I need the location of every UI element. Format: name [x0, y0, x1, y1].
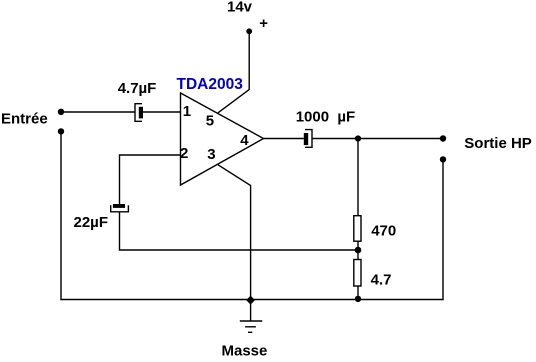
svg-text:1: 1: [183, 103, 191, 120]
svg-text:3: 3: [207, 146, 215, 163]
svg-text:4: 4: [240, 132, 249, 149]
svg-text:5: 5: [206, 113, 214, 130]
svg-text:22µF: 22µF: [74, 214, 109, 231]
svg-text:Entrée: Entrée: [1, 110, 48, 127]
svg-text:4.7: 4.7: [371, 272, 392, 289]
svg-text:Masse: Masse: [222, 343, 268, 360]
svg-text:Sortie HP: Sortie HP: [464, 135, 532, 152]
svg-text:+: +: [259, 15, 268, 32]
svg-text:14v: 14v: [227, 0, 253, 16]
svg-text:2: 2: [180, 145, 188, 162]
svg-text:4.7µF: 4.7µF: [118, 80, 157, 97]
svg-text:470: 470: [371, 223, 396, 240]
svg-text:1000 µF: 1000 µF: [296, 109, 356, 126]
svg-text:TDA2003: TDA2003: [177, 76, 244, 93]
